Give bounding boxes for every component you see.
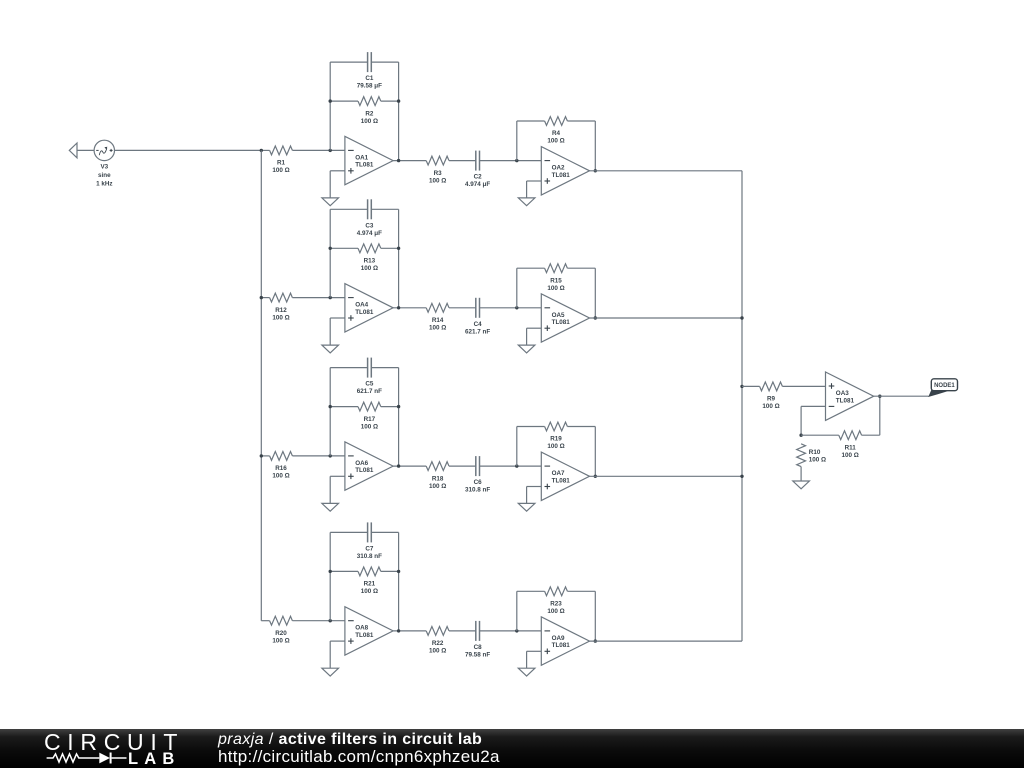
svg-text:100 Ω: 100 Ω (547, 608, 564, 615)
svg-text:100 Ω: 100 Ω (429, 483, 446, 490)
svg-text:TL081: TL081 (355, 467, 374, 474)
svg-text:C2: C2 (474, 174, 483, 181)
svg-text:100 Ω: 100 Ω (361, 588, 378, 595)
svg-text:R11: R11 (845, 444, 857, 451)
svg-text:621.7 nF: 621.7 nF (357, 388, 382, 395)
svg-text:R16: R16 (275, 465, 287, 472)
svg-text:R22: R22 (432, 640, 444, 647)
svg-text:R1: R1 (277, 160, 286, 167)
svg-text:TL081: TL081 (552, 172, 571, 179)
svg-text:C8: C8 (474, 644, 483, 651)
svg-text:R12: R12 (275, 307, 287, 314)
svg-text:OA2: OA2 (552, 165, 565, 172)
svg-text:310.8 nF: 310.8 nF (465, 487, 490, 494)
svg-text:R17: R17 (364, 416, 376, 423)
svg-text:TL081: TL081 (355, 162, 374, 169)
svg-text:R19: R19 (550, 436, 562, 443)
svg-text:R23: R23 (550, 601, 562, 608)
svg-text:621.7 nF: 621.7 nF (465, 328, 490, 335)
svg-text:NODE1: NODE1 (934, 383, 955, 389)
svg-text:V3: V3 (100, 164, 108, 171)
svg-text:C7: C7 (365, 546, 374, 553)
svg-text:100 Ω: 100 Ω (272, 314, 289, 321)
svg-text:100 Ω: 100 Ω (361, 423, 378, 430)
svg-text:R10: R10 (809, 449, 821, 456)
svg-text:C3: C3 (365, 222, 374, 229)
svg-text:OA3: OA3 (836, 390, 849, 397)
svg-text:R18: R18 (432, 475, 444, 482)
svg-text:OA1: OA1 (355, 154, 368, 161)
svg-text:OA7: OA7 (552, 470, 565, 477)
svg-text:C5: C5 (365, 381, 374, 388)
svg-text:TL081: TL081 (355, 632, 374, 639)
svg-text:100 Ω: 100 Ω (842, 452, 859, 459)
svg-text:OA4: OA4 (355, 302, 368, 309)
svg-text:R9: R9 (767, 396, 776, 403)
svg-text:TL081: TL081 (836, 397, 855, 404)
svg-text:310.8 nF: 310.8 nF (357, 553, 382, 560)
svg-text:R3: R3 (434, 170, 443, 177)
svg-text:100 Ω: 100 Ω (429, 648, 446, 655)
svg-text:OA8: OA8 (355, 625, 368, 632)
svg-text:OA6: OA6 (355, 460, 368, 467)
svg-text:100 Ω: 100 Ω (272, 167, 289, 174)
svg-text:R14: R14 (432, 317, 444, 324)
svg-text:4.974 μF: 4.974 μF (357, 230, 382, 237)
svg-text:R21: R21 (364, 581, 376, 588)
svg-text:4.974 μF: 4.974 μF (465, 181, 490, 188)
svg-text:100 Ω: 100 Ω (547, 443, 564, 450)
svg-text:OA9: OA9 (552, 635, 565, 642)
svg-text:1 kHz: 1 kHz (96, 180, 112, 187)
svg-text:79.58 μF: 79.58 μF (357, 83, 382, 90)
svg-text:100 Ω: 100 Ω (429, 177, 446, 184)
svg-text:C6: C6 (474, 479, 483, 486)
svg-text:TL081: TL081 (552, 319, 571, 326)
svg-text:TL081: TL081 (355, 309, 374, 316)
svg-text:100 Ω: 100 Ω (272, 637, 289, 644)
svg-text:R13: R13 (364, 258, 376, 265)
svg-text:TL081: TL081 (552, 642, 571, 649)
svg-text:C4: C4 (474, 321, 483, 328)
svg-text:R15: R15 (550, 277, 562, 284)
svg-text:R4: R4 (552, 130, 561, 137)
svg-text:100 Ω: 100 Ω (809, 457, 826, 464)
svg-text:C1: C1 (365, 75, 374, 82)
svg-text:100 Ω: 100 Ω (762, 403, 779, 410)
svg-text:R2: R2 (365, 110, 374, 117)
svg-text:R20: R20 (275, 630, 287, 637)
svg-text:OA5: OA5 (552, 312, 565, 319)
svg-text:100 Ω: 100 Ω (272, 473, 289, 480)
svg-text:100 Ω: 100 Ω (361, 118, 378, 125)
svg-text:100 Ω: 100 Ω (429, 325, 446, 332)
svg-text:sine: sine (98, 172, 111, 179)
svg-text:100 Ω: 100 Ω (547, 138, 564, 145)
svg-text:79.58 nF: 79.58 nF (465, 652, 490, 659)
svg-text:TL081: TL081 (552, 477, 571, 484)
svg-text:100 Ω: 100 Ω (547, 285, 564, 292)
svg-text:100 Ω: 100 Ω (361, 265, 378, 272)
